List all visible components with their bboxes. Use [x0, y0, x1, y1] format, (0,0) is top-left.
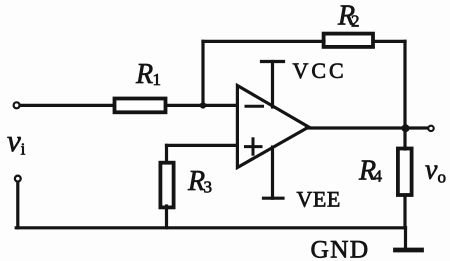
- wire feedback top to R2: [203, 40, 324, 43]
- wire vi terminal down: [16, 182, 19, 228]
- ground symbol: [404, 228, 407, 248]
- VEE supply symbol: [271, 147, 274, 198]
- resistor R3: [160, 163, 173, 208]
- wire right vertical down to output: [403, 41, 406, 128]
- svg-text:GND: GND: [311, 234, 370, 261]
- wire op-amp output: [307, 126, 428, 129]
- wire R4 to ground wire: [403, 195, 406, 228]
- resistor R2: [324, 34, 373, 47]
- svg-text:v: v: [7, 123, 21, 158]
- svg-text:R: R: [187, 166, 205, 197]
- wire R2 to right vertical: [373, 40, 405, 43]
- output terminal vo: [428, 126, 433, 131]
- node output junction dot: [402, 124, 410, 132]
- VCC supply symbol: [262, 60, 284, 63]
- svg-text:i: i: [21, 140, 26, 159]
- wire R3 to plus input: [165, 145, 168, 162]
- svg-text:2: 2: [351, 12, 360, 31]
- wire output down to R4: [403, 128, 406, 149]
- op-amp minus input sign: [246, 105, 263, 108]
- svg-text:4: 4: [374, 167, 383, 186]
- op-amp U1: [237, 86, 308, 168]
- svg-text:v: v: [425, 155, 438, 186]
- wire R1 to inverting input: [167, 104, 237, 107]
- op-amp plus input sign: [246, 145, 262, 148]
- wire input to R1: [20, 104, 114, 107]
- wire R3 bottom: [165, 206, 168, 228]
- svg-text:VEE: VEE: [297, 187, 341, 212]
- svg-text:o: o: [438, 168, 447, 187]
- svg-text:VCC: VCC: [293, 58, 347, 83]
- wire bottom ground net: [16, 226, 405, 229]
- resistor R4: [398, 149, 412, 196]
- wire node A up to feedback: [201, 41, 204, 105]
- input terminal vi: [14, 102, 20, 108]
- svg-text:R: R: [135, 59, 153, 90]
- terminal circle vi lower: [15, 176, 21, 182]
- svg-text:1: 1: [153, 70, 162, 89]
- resistor R1: [115, 99, 166, 113]
- node A junction dot: [200, 102, 206, 108]
- svg-text:3: 3: [204, 178, 213, 197]
